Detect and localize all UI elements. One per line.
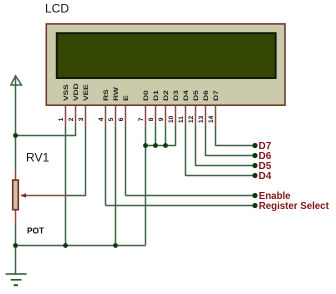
- svg-text:D4: D4: [259, 171, 272, 182]
- svg-text:14: 14: [208, 115, 215, 123]
- potentiometer RV1 body: [13, 180, 19, 210]
- terminal dot D7: [252, 143, 257, 148]
- terminal dot D5: [252, 163, 257, 168]
- ground bar 1: [6, 273, 27, 275]
- junction dot D1 bus: [153, 143, 158, 148]
- pin 2 stub: [75, 105, 77, 125]
- rail wire bottom: [15, 225, 17, 246]
- wire E vertical: [125, 125, 127, 195]
- svg-text:D1: D1: [152, 90, 160, 101]
- terminal dot Register Select: [252, 203, 257, 208]
- svg-text:D5: D5: [192, 90, 200, 101]
- svg-text:D0: D0: [142, 90, 150, 101]
- ground bar 2: [11, 279, 22, 281]
- terminal dot Enable: [252, 193, 257, 198]
- terminal dot D4: [252, 173, 257, 178]
- junction dot rail-ground bus: [13, 243, 18, 248]
- junction dot rail-VDD: [13, 133, 18, 138]
- pin 3 stub: [85, 105, 87, 125]
- wire D4 horizontal: [186, 175, 256, 177]
- wire D0-D3 bus horizontal: [146, 145, 177, 147]
- junction dot RW-ground bus: [113, 243, 118, 248]
- power rail wire top: [15, 85, 17, 170]
- svg-text:D7: D7: [212, 90, 220, 101]
- power arrow stem: [15, 77, 17, 86]
- wire VEE vertical: [85, 125, 87, 196]
- svg-text:8: 8: [148, 117, 155, 121]
- wire VDD vertical: [75, 125, 77, 136]
- svg-text:1: 1: [58, 117, 65, 121]
- pin 11 stub: [185, 105, 187, 125]
- svg-text:Register Select: Register Select: [259, 201, 330, 212]
- junction dot D0 bus: [143, 143, 148, 148]
- svg-text:RV1: RV1: [26, 151, 49, 165]
- wire D3 vertical: [175, 125, 177, 146]
- LCD screen: [57, 33, 276, 78]
- svg-text:7: 7: [138, 117, 145, 121]
- wire D4 vertical: [185, 125, 187, 176]
- svg-text:POT: POT: [27, 225, 44, 235]
- svg-text:6: 6: [118, 117, 125, 121]
- junction dot VSS-ground bus: [63, 243, 68, 248]
- wire D5 vertical: [195, 125, 197, 166]
- svg-text:VEE: VEE: [82, 84, 90, 101]
- svg-text:LCD: LCD: [45, 1, 69, 15]
- pot RV1 bottom lead: [15, 211, 17, 225]
- svg-text:D6: D6: [202, 90, 210, 101]
- pin 8 stub: [155, 105, 157, 125]
- svg-text:3: 3: [78, 117, 85, 121]
- svg-text:2: 2: [68, 117, 75, 121]
- wire RS vertical: [105, 125, 107, 205]
- wire VSS vertical: [65, 125, 67, 245]
- pot RV1 top lead: [15, 170, 17, 180]
- svg-text:10: 10: [168, 115, 175, 123]
- wire D6 horizontal: [206, 155, 256, 157]
- wire D7 horizontal: [216, 145, 256, 147]
- junction dot D2 bus: [163, 143, 168, 148]
- power arrow symbol: [11, 76, 22, 85]
- wire D1 vertical: [155, 125, 157, 145]
- svg-text:D2: D2: [162, 90, 170, 101]
- wire VDD horizontal to rail: [16, 135, 76, 137]
- wire D0 vertical to ground bus: [145, 125, 147, 245]
- svg-text:11: 11: [178, 116, 185, 123]
- pin 14 stub: [215, 105, 217, 125]
- pin 12 stub: [195, 105, 197, 125]
- svg-text:VDD: VDD: [72, 83, 80, 101]
- LCD module LCD1 body: [46, 24, 285, 105]
- pin 13 stub: [205, 105, 207, 125]
- svg-text:RS: RS: [102, 89, 110, 101]
- pin 1 stub: [65, 105, 67, 125]
- svg-text:VSS: VSS: [62, 84, 70, 101]
- svg-text:D4: D4: [182, 89, 190, 101]
- svg-text:9: 9: [158, 117, 165, 121]
- pin 5 stub: [115, 105, 117, 125]
- wire D6 vertical: [205, 125, 207, 156]
- svg-text:E: E: [122, 95, 130, 101]
- wire D2 vertical: [165, 125, 167, 145]
- wire D7 vertical: [215, 125, 217, 146]
- svg-text:12: 12: [188, 115, 195, 123]
- ground bus wire: [16, 245, 146, 247]
- svg-text:D3: D3: [172, 90, 180, 101]
- svg-text:RW: RW: [112, 86, 120, 101]
- pin 6 stub: [125, 105, 127, 125]
- wire RS horizontal to Register Select: [106, 205, 256, 207]
- svg-text:13: 13: [198, 115, 205, 123]
- svg-text:4: 4: [98, 117, 105, 121]
- pin 7 stub: [145, 105, 147, 125]
- pot wiper red lead: [21, 195, 67, 197]
- terminal dot D6: [252, 153, 257, 158]
- wire pot wiper green segment: [67, 195, 86, 197]
- pin 10 stub: [175, 105, 177, 125]
- wire RW vertical to ground bus: [115, 125, 117, 245]
- wire D5 horizontal: [196, 165, 256, 167]
- pin 4 stub: [105, 105, 107, 125]
- ground bar 3: [14, 284, 18, 286]
- ground stem wire: [15, 246, 17, 275]
- svg-text:5: 5: [108, 117, 115, 121]
- potentiometer wiper arrowhead: [21, 193, 27, 198]
- wire E horizontal to Enable: [126, 195, 256, 197]
- pin 9 stub: [165, 105, 167, 125]
